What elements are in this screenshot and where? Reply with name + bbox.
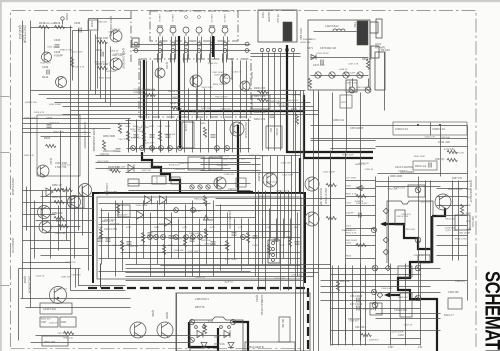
svg-text:D438 470: D438 470 — [208, 63, 218, 65]
resistor R451b — [62, 188, 72, 191]
wire bus line 1 — [31, 90, 306, 92]
test point dolby x193 — [191, 235, 196, 240]
wire top feed — [89, 18, 132, 20]
svg-text:C449: C449 — [157, 126, 163, 128]
svg-text:REC/PB: REC/PB — [267, 12, 271, 22]
wire switch drop x287 — [287, 101, 289, 151]
svg-text:C361 10K: C361 10K — [100, 155, 110, 157]
transistor Q616 — [305, 212, 319, 226]
switch pin 6 — [291, 48, 294, 51]
svg-text:T401: T401 — [353, 22, 356, 28]
wire none — [99, 193, 301, 195]
wire rail y298 — [21, 298, 131, 300]
box C333 — [418, 255, 430, 263]
svg-text:C372 100P: C372 100P — [57, 333, 68, 335]
wire dolby rail 224 — [99, 224, 301, 226]
wire rail y162 — [96, 162, 251, 164]
header pin x186 row2 — [184, 49, 188, 53]
heavy playback signal path right — [382, 224, 432, 249]
wire vertical x467 — [467, 126, 469, 301]
wire dense vert2 176 — [176, 119, 178, 153]
wire stub y164 — [201, 164, 261, 166]
svg-text:C406: C406 — [74, 21, 81, 25]
svg-text:2SC2712GR: 2SC2712GR — [324, 188, 328, 204]
svg-text:C545 1000P: C545 1000P — [356, 87, 369, 89]
connector pin y249 — [272, 248, 275, 251]
svg-text:D446 1000P: D446 1000P — [49, 104, 62, 106]
capacitor dolby 234 — [232, 233, 237, 235]
svg-text:C549 4.7/50: C549 4.7/50 — [396, 216, 409, 218]
test point 375 268 — [372, 265, 378, 271]
connector box CN401 — [132, 38, 139, 47]
svg-text:R450 1M: R450 1M — [52, 184, 62, 187]
svg-text:C553 470: C553 470 — [49, 322, 59, 324]
wire corner b3 — [303, 273, 305, 281]
svg-text:C318 470: C318 470 — [349, 320, 359, 322]
transistor Q418 — [110, 30, 122, 42]
capacitor C56 — [357, 298, 359, 303]
coil L405 box — [371, 46, 379, 58]
heavy trace left channel riser — [143, 60, 145, 148]
wire jack drop x197 — [197, 59, 199, 119]
svg-text:1000P: 1000P — [252, 245, 259, 247]
capacitor C612 — [359, 213, 361, 218]
wire fanout vertical x95 — [95, 35, 97, 95]
wire bottom right col x352 — [352, 266, 354, 346]
svg-text:C445: C445 — [98, 227, 104, 229]
junction diamond bottom — [377, 292, 383, 298]
wire rail y330 — [331, 330, 441, 332]
junction diamond 2 — [383, 249, 389, 255]
wire dolby vertical 199 — [199, 219, 201, 277]
wire dolby vertical 157 — [157, 201, 159, 265]
svg-text:C307 (C): C307 (C) — [435, 159, 445, 161]
svg-text:Q407: Q407 — [49, 158, 53, 165]
svg-text:C313: C313 — [466, 197, 472, 199]
jack label 3 — [198, 16, 201, 19]
svg-text:C572 4.7K: C572 4.7K — [203, 157, 214, 159]
test point dolby x150 — [148, 235, 153, 240]
wire corner 2 — [79, 269, 126, 286]
wire jack lead R — [214, 37, 216, 59]
resistor R430 — [203, 127, 206, 137]
junction diamond 1 — [383, 208, 389, 214]
svg-text:C580 1000P: C580 1000P — [458, 233, 471, 235]
wire rail y172 — [126, 172, 301, 174]
wire rail y313 — [376, 313, 441, 315]
resistor R395 — [97, 66, 107, 69]
wire dolby vertical 178 — [178, 219, 180, 259]
svg-text:C524 0.01: C524 0.01 — [61, 165, 72, 167]
wire rail y335 — [36, 335, 231, 337]
osc pin x229 — [228, 326, 231, 329]
diode D561 — [224, 330, 230, 337]
svg-text:Q416 0.01: Q416 0.01 — [445, 227, 456, 229]
test point x133 — [131, 146, 136, 151]
capacitor C409 — [47, 70, 49, 75]
resistor R436 — [203, 196, 206, 206]
wire dolby rail 252 — [121, 252, 301, 254]
test point x161 — [159, 146, 164, 151]
svg-text:C441 100P: C441 100P — [115, 167, 126, 169]
heavy trace osc right — [233, 322, 248, 351]
box C410 — [236, 178, 246, 187]
box FB101 — [448, 298, 462, 309]
svg-text:Q441 1000P: Q441 1000P — [223, 159, 236, 161]
wire pin drop x157 — [157, 54, 159, 63]
wire eq vertical x430 — [430, 181, 432, 261]
svg-text:Q560: Q560 — [151, 310, 155, 317]
svg-text:C353 100P: C353 100P — [117, 215, 128, 217]
wire left row y262 — [23, 262, 71, 264]
resistor R403 — [46, 144, 56, 147]
heavy trace osc mid — [217, 328, 219, 351]
resistor R457 — [58, 224, 68, 227]
heavy branch Q302 — [432, 208, 445, 216]
wire dolby vertical 220 — [220, 205, 222, 271]
wire rail y168 — [96, 168, 231, 170]
wire dolby vertical 241 — [241, 219, 243, 271]
page edge shading top — [0, 0, 500, 2]
wire rail y148 — [331, 148, 376, 150]
wire dense vert2 192 — [192, 121, 194, 153]
box R315 — [395, 210, 405, 225]
svg-text:C419 0.01: C419 0.01 — [224, 174, 235, 176]
wire right vertical x360 — [360, 151, 362, 341]
wire right stub y188 — [437, 188, 468, 190]
wire rail y132 — [23, 132, 91, 134]
wire eq vertical x458 — [458, 181, 460, 261]
wire bus y264 — [126, 264, 331, 266]
wire rail 173 — [378, 173, 468, 175]
svg-text:Q429 100P: Q429 100P — [143, 142, 155, 144]
svg-text:0.022: 0.022 — [126, 227, 132, 229]
transistor Q401 — [56, 77, 67, 88]
wire dolby vertical 234 — [234, 219, 236, 259]
transistor Q802 — [50, 287, 67, 304]
wire dolby vertical 143 — [143, 201, 145, 259]
test point dolby x243 — [241, 235, 246, 240]
svg-text:Q498 4.7/50: Q498 4.7/50 — [25, 102, 38, 104]
wire jack lead L — [184, 37, 186, 59]
wire right vertical x330 — [330, 151, 332, 341]
resistor R101 — [447, 150, 457, 153]
header pin x225 row1 — [223, 42, 227, 46]
svg-text:R549 100P: R549 100P — [343, 155, 354, 157]
wire dolby vertical 297 — [297, 213, 299, 277]
wire filter drop x360 — [360, 93, 362, 151]
wire jack lead R — [175, 37, 177, 59]
wire bundle vertical x313 — [313, 91, 315, 351]
switch pin 2 — [266, 48, 269, 51]
wire dense vert2 248 — [248, 119, 250, 153]
capacitor C57 — [357, 306, 359, 311]
svg-text:C342 10K: C342 10K — [291, 95, 301, 97]
wire rail y307 — [26, 307, 131, 309]
resistor dolby 227 — [225, 241, 228, 251]
svg-text:VR402: VR402 — [275, 128, 278, 136]
wire left row y220 — [36, 220, 94, 222]
svg-text:R486 2.2K: R486 2.2K — [355, 164, 366, 166]
transistor Q419 — [110, 58, 122, 70]
svg-text:C407: C407 — [46, 116, 53, 120]
resistor R404 — [118, 123, 121, 133]
inductor L402 — [333, 29, 345, 31]
wire left rail x22 — [22, 21, 24, 299]
wire bus y276 — [126, 276, 314, 278]
wire corner 1v — [70, 266, 72, 291]
wire dense vertical 160 — [160, 121, 162, 151]
op-amp U2b — [165, 218, 172, 226]
svg-text:C403 0.018: C403 0.018 — [103, 150, 116, 153]
header pin x212 row1 — [210, 42, 214, 46]
svg-text:C313 100P: C313 100P — [188, 251, 199, 253]
wire left row y240 — [23, 240, 71, 242]
svg-text:R424 4.7K: R424 4.7K — [159, 224, 170, 226]
jack J401 — [157, 26, 163, 36]
svg-text:R537 1000P: R537 1000P — [225, 259, 238, 261]
wire bus line 2 — [39, 94, 301, 96]
wire pin drop x226 — [226, 54, 228, 63]
resistor R612 — [356, 243, 366, 246]
wire left row y208 — [31, 208, 94, 210]
wire rail y136 — [41, 136, 91, 138]
resistor R394 — [97, 40, 107, 43]
svg-text:Q410 BA4560: Q410 BA4560 — [228, 210, 232, 229]
resistor R607 — [356, 194, 366, 197]
wire jack drop x171 — [171, 59, 173, 119]
wire bundle vertical x300 — [300, 91, 302, 351]
wire bus line 3 — [47, 98, 286, 100]
svg-text:C458 4.7K: C458 4.7K — [220, 109, 231, 111]
test point osc 2 — [230, 319, 235, 324]
box D303 — [408, 185, 425, 197]
svg-text:R30? 470: R30? 470 — [452, 178, 463, 180]
capacitor C436 — [55, 45, 60, 47]
wire right stub y245 — [437, 245, 468, 247]
wire switch drop x280 — [280, 98, 282, 151]
svg-text:C309 0.01: C309 0.01 — [395, 127, 408, 131]
svg-text:D481 10K: D481 10K — [201, 108, 211, 110]
wire left col x74 — [74, 196, 76, 259]
wire left row y232 — [46, 232, 94, 234]
wire rail y292 — [321, 292, 441, 294]
svg-text:R555 100P: R555 100P — [344, 73, 355, 75]
jack J403 — [183, 27, 189, 36]
heavy branch to arrow — [386, 294, 400, 296]
svg-text:C468 470: C468 470 — [398, 170, 408, 172]
wire stage vertical x232 — [232, 61, 234, 119]
svg-text:D441 100P: D441 100P — [202, 87, 213, 89]
wire — [30, 21, 32, 81]
resistor R451 — [171, 106, 181, 109]
diode D563 — [228, 343, 234, 348]
svg-text:MUTE: MUTE — [155, 177, 157, 184]
test point x170 — [168, 146, 173, 151]
wire switch lead 2 — [268, 53, 270, 92]
capacitor C406 — [79, 28, 81, 33]
wire dense vertical 168 — [168, 121, 170, 151]
capacitor dolby 213 — [211, 242, 216, 244]
transistor Q416 — [79, 184, 92, 197]
svg-text:C448 0.022: C448 0.022 — [43, 308, 57, 311]
wire dolby vertical 248 — [248, 219, 250, 265]
test point right 1 — [415, 187, 421, 193]
svg-text:C612: C612 — [346, 203, 352, 205]
wire pin drop x222 — [222, 54, 224, 63]
capacitor C378 box — [370, 22, 378, 33]
resistor dolby 185 — [183, 237, 186, 247]
wire box divider — [430, 123, 432, 136]
wire center band x277 — [277, 156, 279, 239]
svg-text:C103: C103 — [398, 334, 404, 337]
test point osc 1 — [189, 319, 194, 324]
svg-text:2SC2712GR: 2SC2712GR — [244, 122, 248, 138]
heavy trace osc left — [189, 322, 218, 347]
mic sw box — [279, 317, 290, 342]
transistor Q408 — [214, 177, 226, 189]
wire jack lead L — [197, 37, 199, 59]
svg-text:1000PF: 1000PF — [346, 213, 354, 215]
jack label 2 — [185, 16, 188, 19]
heavy dashed boundary vertical — [307, 288, 309, 351]
wire rail y308 — [331, 308, 421, 310]
capacitor C425 — [211, 135, 216, 137]
svg-text:S401: S401 — [261, 12, 265, 19]
svg-text:D304 1SS133: D304 1SS133 — [448, 189, 463, 191]
svg-text:Q418 2SK365F: Q418 2SK365F — [109, 16, 113, 37]
jack J402 — [170, 26, 176, 36]
capacitor C407 — [47, 125, 52, 127]
wire dense vert2 128 — [128, 119, 130, 153]
svg-text:C347 4.7K: C347 4.7K — [348, 63, 359, 65]
box C447 — [40, 317, 58, 327]
svg-text:2SC2458GR: 2SC2458GR — [28, 276, 32, 294]
wire — [44, 28, 46, 53]
wire jack lead R — [162, 37, 164, 59]
wire bus y268 — [126, 268, 331, 270]
test point x180 — [178, 146, 183, 151]
transistor Q411 — [38, 206, 51, 219]
wire left rail x78 — [78, 89, 80, 231]
wire fanout vertical x110 — [110, 47, 112, 107]
resistor R419 — [55, 25, 65, 28]
svg-text:Q405 2SK209GR: Q405 2SK209GR — [230, 58, 234, 80]
wire rail y186 — [376, 186, 441, 188]
wire left rail x60 — [60, 131, 62, 231]
svg-text:C397 2.2K: C397 2.2K — [291, 274, 302, 276]
svg-text:R448 1K: R448 1K — [355, 201, 364, 203]
svg-text:Q419 2SK30SF: Q419 2SK30SF — [122, 48, 126, 69]
test point dolby x176 — [174, 235, 179, 240]
wire jack lead R — [201, 37, 203, 59]
box R441b — [60, 317, 76, 327]
wire dolby rail 271 — [99, 271, 251, 273]
transistor Q560 — [130, 322, 146, 338]
resistor center 144 — [142, 131, 145, 141]
wire right stub y215 — [437, 215, 468, 217]
wire rail 146 — [376, 146, 468, 148]
svg-text:Q565: Q565 — [165, 312, 169, 319]
wire dolby tp rail — [99, 237, 301, 239]
svg-text:C482 10K: C482 10K — [141, 170, 151, 172]
wire dolby vertical 185 — [185, 205, 187, 277]
svg-text:C371: C371 — [307, 47, 314, 50]
svg-text:C312 0.022/50V: C312 0.022/50V — [395, 166, 413, 169]
svg-text:D480 0.022: D480 0.022 — [356, 203, 368, 205]
resistor R381 — [366, 59, 369, 69]
wire dolby vertical 262 — [262, 219, 264, 265]
svg-text:C490 1K: C490 1K — [365, 169, 374, 171]
wire pin drop x174 — [174, 54, 176, 63]
wire right grid y188 — [346, 188, 376, 190]
wire vertical x375 — [375, 177, 377, 311]
connector pin y243 — [272, 242, 275, 245]
wire bundle vertical x295 — [295, 91, 297, 351]
filter block B — [209, 157, 222, 170]
svg-text:C328 10K: C328 10K — [440, 137, 450, 139]
wire relay rail — [311, 75, 369, 77]
test point dolby x156 — [154, 235, 159, 240]
wire dense vertical 128 — [128, 121, 130, 151]
svg-text:LINE OU: LINE OU — [223, 14, 225, 23]
wire right grid y215 — [346, 215, 376, 217]
switch pin 4 — [278, 48, 281, 51]
switch pin 1 — [260, 48, 263, 51]
svg-text:SCHEMATIC: SCHEMATIC — [480, 271, 500, 351]
svg-text:C356 470: C356 470 — [281, 90, 291, 92]
osc pin x196 — [195, 326, 198, 329]
transistor Q403 — [155, 68, 165, 78]
heavy signal path staircase — [142, 152, 180, 193]
wire pin drop x196 — [196, 54, 198, 63]
svg-text:C458 10K: C458 10K — [129, 246, 139, 248]
svg-text:C314: C314 — [466, 229, 472, 231]
mosfet gate bar Q405 — [192, 76, 194, 86]
svg-text:R543 100P: R543 100P — [130, 129, 141, 131]
capacitor dolby 129 — [127, 242, 132, 244]
test point mute x208 — [206, 185, 210, 189]
wire left row y226 — [23, 226, 81, 228]
wire mid rail 2 — [216, 205, 331, 207]
page edge shading left — [0, 0, 2, 351]
resistor R407 — [258, 98, 268, 101]
jack J406 — [222, 26, 228, 36]
wire rail y114 — [63, 114, 319, 116]
svg-text:D301 LA4: D301 LA4 — [415, 165, 427, 168]
svg-text:Q410 1K: Q410 1K — [36, 275, 45, 277]
wire stage vertical x146 — [146, 61, 148, 119]
wire dolby rail 210 — [131, 210, 301, 212]
wire vertical x388 — [388, 177, 390, 269]
wire switch drop x268 — [268, 92, 270, 151]
wire center band x262 — [262, 156, 264, 239]
diode D562 — [201, 343, 207, 348]
margin mark 2 — [1, 152, 10, 154]
svg-text:P406: P406 — [90, 21, 94, 28]
wire right grid y245 — [346, 245, 376, 247]
arrowhead left1 — [380, 222, 386, 227]
svg-text:Q405,417 2SK209Y: Q405,417 2SK209Y — [83, 122, 87, 149]
rail junction box — [393, 122, 467, 135]
svg-text:D490 4.7/50: D490 4.7/50 — [24, 118, 37, 120]
wire right stub y205 — [437, 205, 468, 207]
svg-text:D601: D601 — [346, 186, 352, 188]
wire left col x42 — [42, 191, 44, 226]
wire rail y280 — [321, 280, 468, 282]
svg-text:R56? 56: R56? 56 — [195, 306, 205, 309]
svg-text:R462 2.2K: R462 2.2K — [254, 111, 266, 114]
